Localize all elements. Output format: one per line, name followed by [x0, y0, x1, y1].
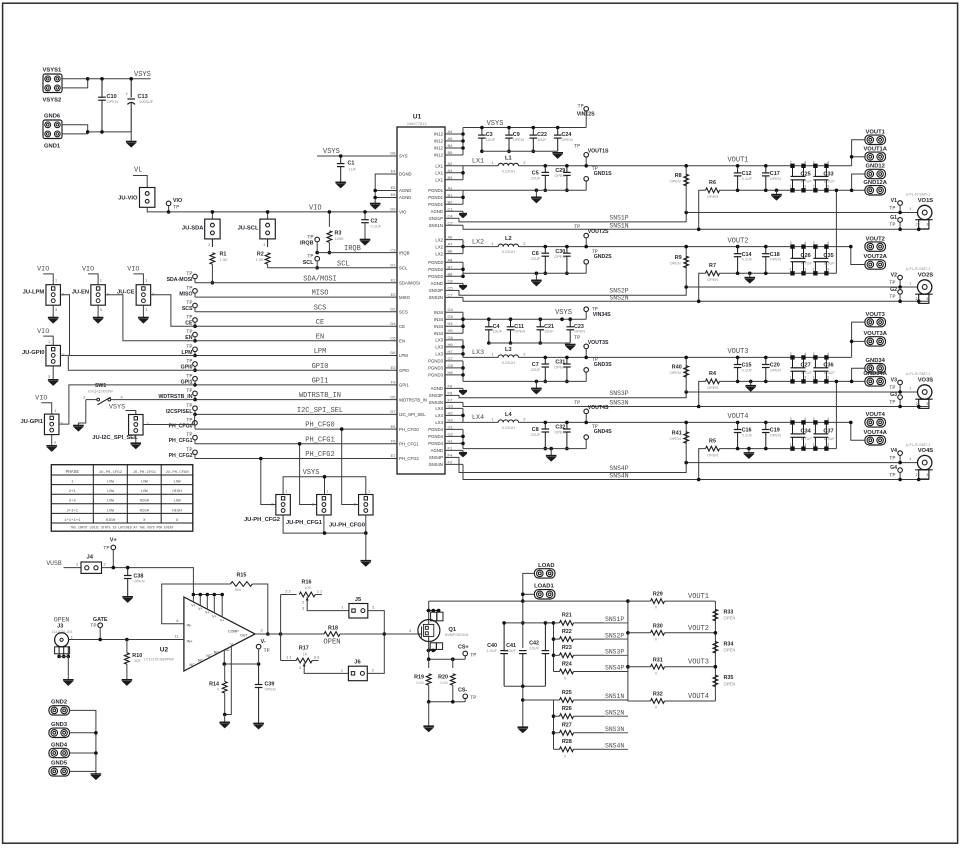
svg-text:R35: R35 — [724, 675, 734, 681]
resistor R28 — [554, 748, 560, 750]
svg-text:SNS3P: SNS3P — [609, 390, 628, 397]
wire U2 output — [255, 633, 281, 635]
svg-text:PH_CFG2: PH_CFG2 — [305, 451, 334, 459]
svg-text:G3: G3 — [448, 403, 454, 408]
svg-text:PGND4: PGND4 — [428, 441, 443, 446]
resistor R24 — [554, 671, 560, 673]
svg-text:LX3: LX3 — [435, 338, 443, 343]
resistor R5 — [699, 449, 706, 480]
svg-text:GPI1: GPI1 — [312, 378, 329, 386]
svg-text:VIO: VIO — [309, 204, 322, 212]
svg-text:0.01: 0.01 — [440, 680, 448, 685]
resistor R18 — [281, 633, 324, 635]
svg-text:V2: V2 — [891, 272, 897, 278]
resistor R6 — [699, 190, 706, 229]
testpoint CS- TP — [463, 694, 468, 699]
svg-text:GPI1: GPI1 — [399, 383, 409, 388]
net label SNS2N — [604, 715, 628, 717]
svg-text:PH_CFG2: PH_CFG2 — [169, 453, 193, 459]
svg-text:F8: F8 — [448, 383, 453, 388]
svg-text:SNS3N: SNS3N — [605, 726, 624, 733]
wire output branch vertical — [280, 595, 282, 661]
wire R2 to SCL line — [267, 264, 269, 268]
svg-text:1: 1 — [285, 490, 287, 494]
wire VSYS rail — [88, 78, 151, 80]
svg-text:VSYS: VSYS — [134, 71, 151, 79]
wire JU-VIO to VIO rail — [147, 207, 168, 212]
wire load caps top rail — [504, 622, 553, 624]
svg-text:MISO: MISO — [179, 292, 192, 298]
svg-text:2: 2 — [790, 352, 792, 356]
svg-text:G1: G1 — [890, 215, 897, 221]
ground below JU-GPI1 — [51, 435, 53, 446]
testpoint G3 — [898, 395, 903, 400]
svg-text:2: 2 — [523, 161, 525, 165]
svg-text:GND2S: GND2S — [594, 254, 612, 260]
svg-text:GND1: GND1 — [44, 144, 61, 150]
junction on signal line — [193, 383, 197, 387]
svg-text:OPEN: OPEN — [265, 687, 276, 692]
svg-text:OPEN: OPEN — [707, 385, 718, 390]
svg-text:C3: C3 — [390, 247, 396, 252]
svg-text:SNS2N: SNS2N — [605, 709, 624, 716]
capacitor C14 — [736, 245, 740, 249]
capacitor C8 — [544, 421, 548, 425]
svg-text:1: 1 — [813, 376, 815, 380]
junction on signal line — [193, 339, 197, 343]
wire SNS3P — [459, 392, 918, 398]
svg-text:C8: C8 — [448, 278, 454, 283]
svg-text:IN12: IN12 — [434, 146, 444, 151]
svg-text:2: 2 — [813, 417, 815, 421]
svg-text:LX3: LX3 — [435, 345, 443, 350]
net label SNS1N — [604, 699, 628, 701]
svg-text:1: 1 — [909, 386, 911, 390]
svg-text:G2: G2 — [448, 431, 454, 436]
svg-text:NC: NC — [198, 659, 204, 663]
svg-text:IRQB: IRQB — [300, 241, 314, 247]
svg-text:4: 4 — [804, 160, 806, 164]
svg-text:COMP: COMP — [228, 630, 239, 634]
capacitor C18 — [764, 245, 768, 249]
svg-text:VOUT4: VOUT4 — [727, 413, 748, 421]
svg-text:SNS1P: SNS1P — [609, 214, 628, 221]
svg-text:GND4: GND4 — [51, 742, 68, 748]
svg-text:LOW: LOW — [107, 509, 115, 513]
capacitor C34 — [791, 421, 794, 424]
svg-text:1: 1 — [790, 443, 792, 447]
svg-text:IN34: IN34 — [434, 331, 444, 336]
svg-text:OPEN: OPEN — [770, 367, 781, 372]
svg-text:6.3UF: 6.3UF — [824, 261, 835, 266]
svg-text:1: 1 — [790, 185, 792, 189]
svg-text:THE INPUT LOGIC STATE IS LATCH: THE INPUT LOGIC STATE IS LATCHED AT THE … — [70, 526, 173, 530]
svg-text:PGND1: PGND1 — [428, 195, 443, 200]
svg-text:22UF: 22UF — [531, 367, 541, 372]
capacitor C29 — [565, 164, 569, 168]
testpoint MISO TP — [193, 289, 198, 294]
svg-text:3: 3 — [926, 297, 928, 301]
wire R16 wiper to J5 — [307, 597, 349, 611]
svg-text:SNS1P: SNS1P — [605, 616, 624, 623]
capacitor C37 — [814, 421, 817, 424]
wire U2 IN+ line — [69, 639, 184, 641]
svg-text:1: 1 — [491, 418, 493, 422]
pads Q1 source pins — [430, 643, 436, 650]
svg-text:OPEN: OPEN — [554, 173, 565, 178]
svg-text:LX2: LX2 — [435, 237, 443, 242]
svg-text:22UF: 22UF — [531, 432, 541, 437]
svg-text:OPEN: OPEN — [724, 648, 736, 653]
svg-text:G2: G2 — [890, 287, 897, 293]
wire SNS4N — [463, 464, 929, 479]
wire VOUT4A feed — [851, 422, 865, 440]
svg-text:1: 1 — [326, 490, 328, 494]
svg-text:LOAD1: LOAD1 — [534, 583, 554, 589]
svg-text:TP: TP — [103, 545, 109, 551]
svg-text:PH_CFG1: PH_CFG1 — [399, 442, 419, 447]
capacitor C6 — [544, 245, 548, 249]
svg-text:C35: C35 — [823, 253, 833, 259]
svg-text:H8: H8 — [448, 370, 454, 375]
svg-text:VIN34S: VIN34S — [593, 312, 611, 318]
testpoint V+ TP — [111, 545, 116, 550]
resistor R40 — [685, 357, 687, 392]
svg-text:OPEN: OPEN — [770, 432, 781, 437]
svg-text:TP: TP — [574, 143, 580, 149]
svg-text:4: 4 — [827, 241, 829, 245]
svg-text:2: 2 — [264, 243, 266, 247]
wire IN12 pins vertical — [462, 128, 464, 156]
svg-text:R7: R7 — [709, 263, 716, 269]
ground left rail ch4 — [550, 449, 552, 456]
svg-text:JU-PH-CFG2: JU-PH-CFG2 — [99, 471, 123, 475]
svg-text:2 2: 2 2 — [285, 589, 290, 593]
svg-text:IRQB: IRQB — [399, 250, 410, 255]
wire JU-CE to CE line — [151, 295, 195, 327]
ground below GND headers — [95, 771, 97, 774]
svg-text:VOUT2: VOUT2 — [688, 625, 709, 633]
svg-text:MISO: MISO — [399, 295, 411, 300]
svg-text:R29: R29 — [653, 592, 663, 598]
wire JU-LPM to LPM line — [61, 295, 196, 356]
svg-text:TP: TP — [173, 204, 179, 210]
svg-text:V4: V4 — [891, 448, 897, 454]
svg-text:1: 1 — [76, 562, 78, 566]
svg-text:TP: TP — [889, 455, 895, 461]
svg-text:LX2: LX2 — [435, 251, 443, 256]
svg-text:SNS2N: SNS2N — [429, 295, 443, 300]
svg-text:2: 2 — [104, 562, 106, 566]
svg-text:VSYS2: VSYS2 — [43, 98, 62, 104]
svg-text:U.FL-R-SMT-1: U.FL-R-SMT-1 — [906, 267, 931, 271]
svg-text:4.7UF: 4.7UF — [801, 370, 812, 375]
testpoint PH_CFG0 TP — [193, 421, 198, 426]
wire net CE — [195, 325, 397, 327]
svg-text:LPM: LPM — [399, 353, 408, 358]
ground left rail ch1 — [535, 190, 537, 197]
capacitor C41 — [519, 651, 527, 654]
testpoint CS+ TP — [463, 651, 468, 656]
svg-text:2: 2 — [813, 160, 815, 164]
svg-text:U2: U2 — [160, 647, 169, 654]
svg-text:3: 3 — [302, 606, 304, 610]
svg-text:V+: V+ — [198, 607, 202, 611]
resistor R14 — [222, 682, 227, 694]
svg-text:TP: TP — [889, 294, 895, 300]
svg-text:3: 3 — [926, 473, 928, 477]
testpoint V3 — [898, 380, 903, 385]
svg-text:500: 500 — [235, 587, 242, 592]
testpoint I2CSPISEL TP — [193, 406, 198, 411]
ic U1 MAX77812 — [397, 127, 445, 474]
svg-text:LOW: LOW — [107, 490, 115, 494]
svg-text:F6: F6 — [391, 439, 396, 444]
svg-text:2: 2 — [208, 243, 210, 247]
svg-text:VO3S: VO3S — [918, 378, 934, 384]
svg-text:B3: B3 — [448, 175, 454, 180]
svg-text:OPEN: OPEN — [562, 137, 573, 142]
wire load caps bottom rail — [504, 685, 545, 687]
ground below jumper — [52, 305, 54, 317]
svg-text:IRQB: IRQB — [344, 245, 361, 253]
svg-text:C1: C1 — [448, 206, 454, 211]
svg-text:2: 2 — [813, 241, 815, 245]
ground left rail ch2 — [535, 273, 537, 280]
wire J6 to R18 node — [367, 634, 384, 673]
ground below JU-I2C_SPI_SEL — [135, 435, 137, 443]
svg-text:WDTRSTB_IN: WDTRSTB_IN — [299, 392, 341, 400]
svg-text:A6: A6 — [448, 235, 454, 240]
ground below C1 — [335, 182, 346, 187]
wire right ground rail ch3 — [720, 380, 865, 382]
svg-text:R15: R15 — [236, 572, 246, 578]
net label SNS1P — [604, 622, 628, 624]
svg-text:3: 3 — [926, 223, 928, 227]
svg-text:IN34: IN34 — [434, 310, 444, 315]
testpoint VOUT1S — [584, 153, 589, 158]
svg-text:OUT: OUT — [240, 634, 248, 638]
svg-text:GND3: GND3 — [51, 722, 68, 728]
svg-text:R26: R26 — [562, 706, 572, 712]
svg-text:4: 4 — [827, 352, 829, 356]
svg-text:3 3: 3 3 — [314, 655, 319, 659]
svg-text:LPM: LPM — [314, 348, 327, 356]
svg-text:VOUT4S: VOUT4S — [588, 405, 609, 411]
svg-text:1: 1 — [55, 279, 57, 283]
svg-text:D6: D6 — [390, 350, 396, 355]
junction on signal line — [193, 368, 197, 372]
svg-text:G1: G1 — [448, 424, 454, 429]
svg-text:VO4S: VO4S — [918, 448, 934, 454]
svg-text:J5: J5 — [355, 597, 362, 603]
testpoint SCS TP — [193, 303, 198, 308]
resistor R25 — [554, 699, 560, 701]
svg-text:SNS4P: SNS4P — [429, 455, 443, 460]
svg-text:VSYS: VSYS — [303, 469, 320, 477]
svg-text:L1: L1 — [505, 155, 512, 161]
svg-text:F7: F7 — [448, 397, 453, 402]
svg-text:1 1: 1 1 — [317, 589, 322, 593]
svg-text:R22: R22 — [562, 629, 572, 635]
svg-text:0.22UH: 0.22UH — [502, 168, 515, 173]
svg-text:D1: D1 — [390, 263, 396, 268]
ground right rail ch3 — [749, 380, 753, 384]
svg-text:0.01: 0.01 — [416, 680, 424, 685]
capacitor C31 — [565, 356, 569, 360]
svg-text:IN12: IN12 — [434, 153, 444, 158]
resistor R27 — [552, 731, 556, 735]
ground below C2 — [360, 240, 371, 245]
wire net PH_CFG1 — [195, 443, 397, 445]
svg-text:3: 3 — [804, 443, 806, 447]
svg-text:SNS2P: SNS2P — [605, 632, 624, 639]
ground below Q1 sense — [428, 702, 430, 726]
resistor R3 — [328, 212, 330, 227]
svg-text:VIO: VIO — [399, 210, 407, 215]
svg-text:H5: H5 — [448, 328, 454, 333]
wire net GPI1 — [195, 384, 397, 386]
svg-text:LX4: LX4 — [435, 406, 443, 411]
svg-text:VSYS: VSYS — [555, 309, 572, 317]
svg-text:NC: NC — [206, 654, 212, 658]
svg-text:J4: J4 — [86, 554, 93, 560]
ground load trunk — [518, 727, 529, 732]
wire net SCS — [195, 311, 397, 313]
svg-text:LX1: LX1 — [472, 158, 484, 166]
svg-text:GND4S: GND4S — [594, 429, 612, 435]
svg-text:H6: H6 — [448, 342, 454, 347]
svg-text:4.7UF: 4.7UF — [801, 436, 812, 441]
svg-text:L4: L4 — [505, 412, 512, 418]
node VSYS junction — [86, 77, 90, 81]
svg-text:B8: B8 — [448, 271, 454, 276]
svg-text:PH_CFG0: PH_CFG0 — [399, 427, 419, 432]
svg-text:LT1210CS8#PBF: LT1210CS8#PBF — [144, 657, 175, 662]
svg-text:10K: 10K — [134, 658, 141, 663]
wire SNS1N — [463, 225, 929, 229]
svg-text:OPEN: OPEN — [323, 638, 340, 646]
testpoint GATE TP — [98, 623, 103, 628]
wire VUSB to J4 — [64, 567, 82, 569]
svg-text:SDA/MOSI: SDA/MOSI — [399, 280, 420, 285]
capacitor C23 — [568, 317, 572, 321]
svg-text:G5: G5 — [448, 314, 454, 319]
svg-text:PGND4: PGND4 — [428, 427, 443, 432]
svg-text:SCL: SCL — [337, 260, 350, 268]
wire PGND4 pins vertical — [462, 429, 464, 448]
svg-text:1: 1 — [341, 669, 343, 673]
resistor R23 — [552, 654, 556, 658]
svg-text:1: 1 — [909, 281, 911, 285]
capacitor C24 — [556, 126, 560, 130]
svg-text:SNS1P: SNS1P — [429, 216, 443, 221]
svg-text:F1: F1 — [448, 445, 453, 450]
svg-text:VSYS1: VSYS1 — [43, 68, 62, 74]
svg-text:H1: H1 — [448, 438, 454, 443]
svg-text:1K: 1K — [303, 651, 308, 656]
svg-text:4: 4 — [121, 395, 123, 399]
svg-text:LOW: LOW — [141, 490, 149, 494]
testpoint V2 — [898, 275, 903, 280]
testpoint WDTRSTB_IN TP — [193, 391, 198, 396]
svg-text:G8: G8 — [448, 363, 454, 368]
svg-text:E6: E6 — [391, 424, 397, 429]
junction on signal line — [193, 398, 197, 402]
svg-text:2: 2 — [312, 503, 314, 507]
svg-text:NC: NC — [214, 650, 220, 654]
testpoint VOUT3S — [584, 344, 589, 349]
capacitor C26 — [791, 245, 794, 248]
resistor R35 — [713, 675, 718, 687]
wire VOUT3 rail — [519, 356, 852, 358]
svg-text:A5: A5 — [448, 136, 454, 141]
svg-text:OPEN: OPEN — [554, 365, 565, 370]
svg-text:2: 2 — [916, 223, 918, 227]
ground AGND pin ch2 — [462, 283, 464, 285]
svg-text:J3: J3 — [57, 624, 63, 630]
svg-text:1: 1 — [790, 376, 792, 380]
svg-text:H7: H7 — [448, 349, 454, 354]
testpoint V1 — [898, 201, 903, 206]
svg-text:PGND1: PGND1 — [428, 202, 443, 207]
svg-text:1: 1 — [341, 606, 343, 610]
svg-text:TP: TP — [574, 224, 580, 230]
svg-text:HIGH: HIGH — [172, 490, 182, 494]
svg-text:JU-PH_CFG1: JU-PH_CFG1 — [286, 520, 323, 526]
wire R18 to Q1 gate — [384, 633, 418, 635]
capacitor C4 — [487, 317, 491, 321]
wire J5 to R18 node — [368, 611, 385, 634]
svg-text:0.1UF: 0.1UF — [742, 176, 753, 181]
svg-text:SNS2N: SNS2N — [609, 294, 628, 301]
svg-text:3: 3 — [145, 308, 147, 312]
svg-text:+: + — [126, 92, 129, 97]
svg-text:2: 2 — [813, 352, 815, 356]
svg-text:LX3: LX3 — [472, 349, 484, 357]
svg-text:TP: TP — [889, 472, 895, 478]
svg-text:C34: C34 — [801, 429, 812, 435]
svg-text:AGND: AGND — [399, 195, 411, 200]
svg-text:3: 3 — [804, 376, 806, 380]
svg-text:VSYS: VSYS — [323, 148, 340, 156]
capacitor C12 — [736, 164, 740, 168]
svg-text:2: 2 — [790, 160, 792, 164]
svg-text:3: 3 — [827, 443, 829, 447]
resistor R4 — [699, 381, 706, 406]
svg-text:U.FL-R-SMT-1: U.FL-R-SMT-1 — [906, 443, 931, 447]
testpoint GND3S — [584, 368, 589, 373]
svg-text:1: 1 — [491, 161, 493, 165]
wire LOAD trunk — [523, 573, 535, 648]
svg-text:CE: CE — [316, 319, 324, 327]
svg-text:C4: C4 — [448, 213, 454, 218]
svg-text:CS-: CS- — [458, 688, 467, 694]
svg-text:SNS4N: SNS4N — [605, 743, 624, 750]
svg-text:VIO: VIO — [35, 395, 47, 403]
wire ground trunk — [522, 686, 524, 727]
wire VOUT3 headers feed — [852, 322, 865, 357]
svg-text:OPEN: OPEN — [670, 436, 681, 441]
resistor R10 — [125, 638, 129, 642]
wire SNS2P — [459, 287, 918, 295]
wire PH_CFG0 to JU-PH_CFG0 — [342, 429, 359, 504]
svg-text:LX1: LX1 — [435, 164, 443, 169]
svg-text:1000UF: 1000UF — [139, 99, 154, 104]
ground below R10 — [122, 680, 133, 685]
svg-text:2: 2 — [523, 418, 525, 422]
svg-text:A1: A1 — [448, 185, 454, 190]
